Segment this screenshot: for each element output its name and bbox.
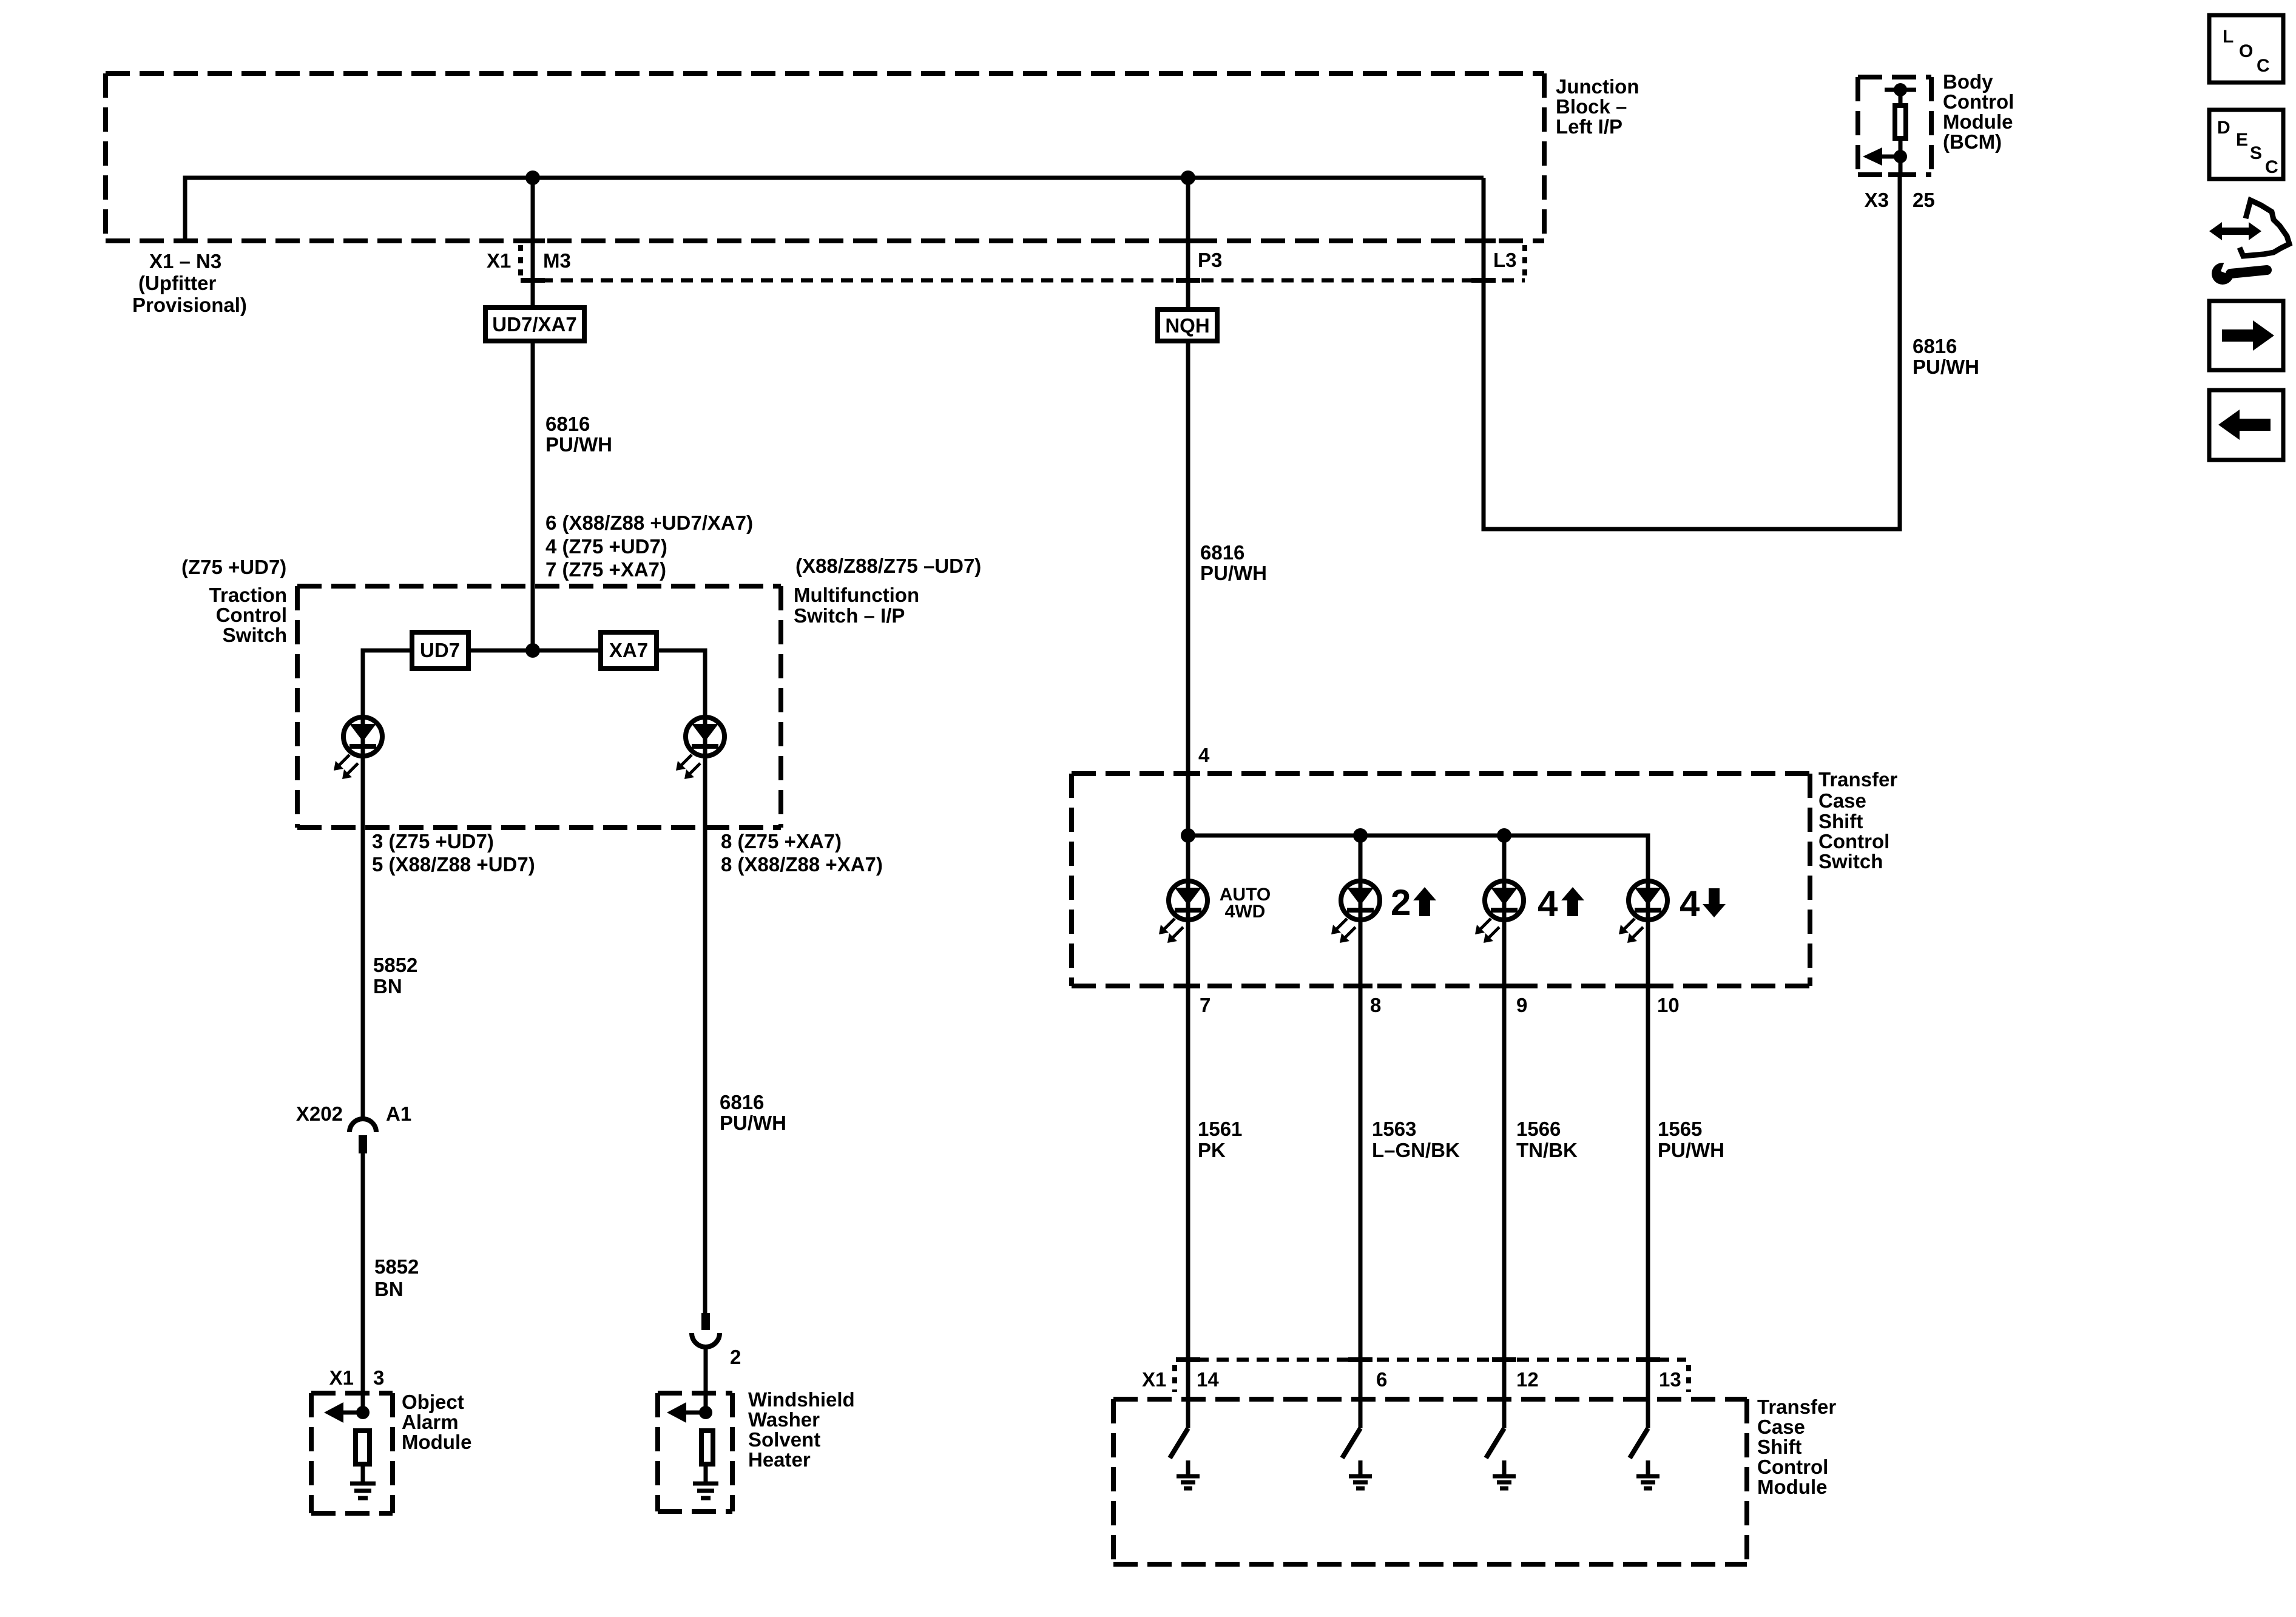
svg-text:Case: Case: [1757, 1416, 1805, 1438]
svg-text:Transfer: Transfer: [1818, 768, 1897, 791]
svg-text:NQH: NQH: [1165, 314, 1209, 337]
svg-text:(Upfitter: (Upfitter: [138, 272, 216, 294]
svg-text:M3: M3: [543, 249, 571, 272]
svg-text:PU/WH: PU/WH: [545, 433, 612, 456]
module strip separator right: [1686, 1365, 1691, 1392]
node bus 2: [1353, 828, 1368, 843]
svg-text:Case: Case: [1818, 789, 1866, 812]
label 6816 PU/WH washer: [720, 1091, 786, 1134]
fuse box UD7/XA7: [485, 308, 584, 341]
connector strip separator right: [1522, 245, 1527, 278]
svg-text:UD7/XA7: UD7/XA7: [492, 313, 576, 336]
label pin variants upper: [545, 511, 753, 581]
switch blade 3: [1486, 1428, 1504, 1458]
wire switch row left: [363, 650, 410, 1119]
wire main feed run: [185, 178, 1484, 243]
svg-text:D: D: [2217, 118, 2230, 138]
svg-text:TN/BK: TN/BK: [1516, 1139, 1578, 1161]
svg-text:2: 2: [1391, 882, 1411, 923]
svg-text:Switch: Switch: [223, 624, 287, 646]
fuse box NQH: [1158, 309, 1217, 341]
svg-text:6816: 6816: [720, 1091, 764, 1113]
svg-text:X202: X202: [296, 1102, 343, 1125]
svg-text:3: 3: [373, 1366, 384, 1389]
svg-text:P3: P3: [1198, 249, 1222, 271]
svg-text:12: 12: [1516, 1368, 1539, 1391]
node junction on main wire at UD7/XA7 drop: [525, 170, 540, 185]
svg-text:Provisional): Provisional): [132, 294, 247, 316]
ticks strip crossings: [1176, 1357, 1660, 1362]
option box UD7: [412, 632, 468, 669]
label X1 | 3 object: [329, 1366, 385, 1389]
LED 4LO: [1619, 881, 1667, 943]
svg-text:Washer: Washer: [748, 1408, 820, 1431]
svg-text:Shift: Shift: [1757, 1436, 1801, 1458]
wire LED drop 2: [1359, 836, 1363, 1428]
svg-text:XA7: XA7: [609, 639, 648, 661]
svg-text:X1: X1: [487, 249, 511, 272]
node junction at switch row: [525, 643, 540, 658]
label pins below traction: [372, 830, 535, 876]
svg-text:PU/WH: PU/WH: [720, 1112, 786, 1134]
resistor BCM: [1895, 106, 1906, 138]
wire NQH drop: [1186, 178, 1190, 307]
svg-text:Control: Control: [216, 604, 287, 626]
resistor washer: [701, 1431, 713, 1464]
connector strip separator left: [518, 245, 523, 278]
traction control switch label: [209, 584, 287, 646]
svg-text:Shift: Shift: [1818, 810, 1863, 832]
LED indicator right: [676, 717, 724, 779]
traction/multifunction switch dashed box: [297, 586, 781, 828]
svg-text:X1 – N3: X1 – N3: [149, 250, 221, 272]
ground module 2: [1349, 1460, 1372, 1488]
module strip separator left: [1172, 1365, 1177, 1392]
node junction on main wire at NQH drop: [1181, 170, 1195, 185]
svg-text:4 (Z75 +UD7): 4 (Z75 +UD7): [545, 535, 667, 558]
svg-text:Heater: Heater: [748, 1448, 811, 1471]
svg-text:3 (Z75 +UD7): 3 (Z75 +UD7): [372, 830, 494, 852]
svg-text:Control: Control: [1757, 1456, 1828, 1478]
svg-text:25: 25: [1913, 189, 1935, 211]
multifunction switch label: [794, 584, 919, 627]
svg-text:Traction: Traction: [209, 584, 287, 606]
LED 4HI: [1475, 881, 1524, 943]
BCM label: [1943, 70, 2014, 153]
wire below X202: [361, 1153, 365, 1413]
svg-text:4: 4: [1680, 883, 1700, 924]
svg-text:6: 6: [1376, 1368, 1387, 1391]
wire LED drop 1: [1186, 836, 1190, 1428]
tick strip crossing: [521, 278, 545, 283]
svg-text:5 (X88/Z88 +UD7): 5 (X88/Z88 +UD7): [372, 853, 535, 876]
label 1561 PK: [1198, 1118, 1242, 1161]
tick L3 crossing: [1471, 238, 1496, 243]
svg-text:Control: Control: [1818, 830, 1889, 852]
wire switch row mid: [471, 649, 598, 653]
label 1566 TN/BK: [1516, 1118, 1578, 1161]
svg-text:4: 4: [1198, 744, 1210, 766]
ground module 3: [1493, 1460, 1516, 1488]
label X1 - N3 (Upfitter Provisional): [132, 250, 247, 316]
svg-text:8 (X88/Z88 +XA7): 8 (X88/Z88 +XA7): [721, 853, 883, 876]
svg-text:13: 13: [1659, 1368, 1681, 1391]
label AUTO 4WD: [1220, 885, 1271, 922]
svg-text:Solvent: Solvent: [748, 1428, 820, 1451]
svg-text:E: E: [2236, 130, 2248, 150]
svg-text:6816: 6816: [1913, 335, 1957, 357]
svg-text:Module: Module: [1757, 1476, 1827, 1498]
wire L3 drop: [1484, 175, 1900, 529]
svg-text:14: 14: [1197, 1368, 1219, 1391]
svg-text:Block –: Block –: [1556, 95, 1627, 118]
tick BCM bottom crossing: [1888, 172, 1913, 177]
ground washer: [693, 1467, 718, 1498]
svg-text:Module: Module: [1943, 110, 2013, 133]
junction block connector strip dotted bottom: [521, 279, 1525, 283]
wire below UD7/XA7 box: [531, 343, 535, 650]
svg-text:C: C: [2265, 157, 2278, 177]
icon left arrow box: [2209, 390, 2283, 460]
tick switch box top crossing: [1176, 771, 1200, 776]
node bus 1: [1181, 828, 1195, 843]
svg-text:Switch – I/P: Switch – I/P: [794, 604, 905, 627]
svg-text:10: 10: [1657, 994, 1680, 1016]
option box XA7: [601, 632, 657, 669]
windshield washer label: [748, 1388, 855, 1471]
switch blade 1: [1170, 1428, 1188, 1458]
svg-text:Module: Module: [402, 1431, 471, 1453]
svg-text:(BCM): (BCM): [1943, 130, 2002, 153]
tick P3 crossing: [1176, 238, 1200, 243]
svg-text:9: 9: [1516, 994, 1527, 1016]
icon DESC box: [2209, 110, 2283, 179]
label 1563 L-GN/BK: [1372, 1118, 1460, 1161]
tick strip crossing L3: [1471, 278, 1496, 283]
svg-text:C: C: [2257, 56, 2270, 76]
transfer case switch dashed box: [1072, 774, 1810, 986]
svg-text:Control: Control: [1943, 90, 2014, 113]
label 5852 BN upper: [373, 954, 417, 998]
wire BCM resistor to pin: [1899, 141, 1903, 177]
junction block - left I/P dashed box: [106, 73, 1544, 241]
svg-text:Junction: Junction: [1556, 75, 1639, 98]
ground object module: [350, 1467, 376, 1498]
svg-text:8: 8: [1370, 994, 1381, 1016]
svg-text:Left I/P: Left I/P: [1556, 115, 1622, 138]
ground module 4: [1636, 1460, 1660, 1488]
tick strip crossing P3: [1176, 278, 1200, 283]
object alarm module dashed box: [311, 1393, 393, 1513]
switch blade 2: [1342, 1428, 1360, 1458]
label pins below multifunction: [721, 830, 883, 876]
svg-text:(X88/Z88/Z75 –UD7): (X88/Z88/Z75 –UD7): [795, 555, 981, 577]
svg-text:O: O: [2239, 41, 2253, 61]
icon diagnostic hook: [2240, 200, 2289, 256]
ticks switch box bottom: [1176, 984, 1660, 988]
svg-text:6 (X88/Z88 +UD7/XA7): 6 (X88/Z88 +UD7/XA7): [545, 511, 753, 534]
LED 2HI: [1331, 881, 1380, 943]
wire LED bus: [1188, 836, 1648, 1428]
svg-text:Alarm: Alarm: [402, 1411, 459, 1433]
wire washer lower: [704, 1346, 708, 1413]
svg-text:PK: PK: [1198, 1139, 1226, 1161]
arrow input washer: [667, 1402, 712, 1423]
svg-text:L: L: [2223, 27, 2234, 47]
LED indicator left: [334, 717, 382, 779]
transfer case module label: [1757, 1396, 1836, 1498]
svg-text:S: S: [2250, 143, 2262, 163]
svg-text:6816: 6816: [1200, 541, 1244, 564]
icon double arrow: [2222, 228, 2249, 235]
icon LOC box: [2209, 15, 2283, 83]
ground module 1: [1177, 1460, 1200, 1488]
inline connector washer pin 2: [692, 1313, 720, 1347]
svg-text:UD7: UD7: [420, 639, 460, 661]
module connector strip dotted line: [1177, 1358, 1686, 1362]
svg-text:5852: 5852: [373, 954, 417, 976]
transfer case switch label: [1818, 768, 1897, 873]
svg-text:PU/WH: PU/WH: [1913, 356, 1979, 378]
transfer case module dashed box: [1113, 1399, 1747, 1564]
svg-text:5852: 5852: [374, 1255, 419, 1278]
svg-text:Switch: Switch: [1818, 850, 1883, 873]
body control module dashed box: [1858, 77, 1931, 175]
svg-text:Body: Body: [1943, 70, 1993, 93]
icon wrench: [2212, 263, 2234, 285]
svg-text:BN: BN: [374, 1278, 403, 1300]
node bus 3: [1497, 828, 1511, 843]
arrow input BCM: [1863, 147, 1907, 166]
label 5852 BN lower: [374, 1255, 419, 1300]
svg-text:6816: 6816: [545, 413, 590, 435]
svg-text:1561: 1561: [1198, 1118, 1242, 1140]
svg-text:L–GN/BK: L–GN/BK: [1372, 1139, 1460, 1161]
svg-text:L3: L3: [1493, 249, 1517, 271]
svg-text:X1: X1: [329, 1366, 354, 1389]
svg-text:Transfer: Transfer: [1757, 1396, 1836, 1418]
svg-text:Object: Object: [402, 1391, 464, 1413]
windshield washer dashed box: [658, 1393, 732, 1511]
svg-text:1565: 1565: [1658, 1118, 1702, 1140]
svg-text:4WD: 4WD: [1225, 902, 1266, 922]
label 6816 PU/WH left: [545, 413, 612, 456]
LED AUTO 4WD: [1159, 881, 1207, 943]
svg-text:1563: 1563: [1372, 1118, 1416, 1140]
object alarm module label: [402, 1391, 471, 1453]
svg-text:PU/WH: PU/WH: [1200, 562, 1267, 584]
inline connector X202 A1: [349, 1119, 376, 1153]
svg-text:(Z75 +UD7): (Z75 +UD7): [181, 556, 286, 578]
svg-text:2: 2: [730, 1346, 741, 1368]
svg-text:4: 4: [1538, 883, 1558, 924]
BCM splice bar: [1885, 88, 1916, 92]
tick M3 crossing: [521, 238, 545, 243]
icon right arrow box: [2209, 301, 2283, 370]
svg-text:BN: BN: [373, 975, 402, 998]
arrow input object module: [324, 1402, 370, 1423]
switch blade 4: [1630, 1428, 1648, 1458]
label 1565 PU/WH: [1658, 1118, 1724, 1161]
svg-text:8 (Z75 +XA7): 8 (Z75 +XA7): [721, 830, 842, 852]
svg-text:7 (Z75 +XA7): 7 (Z75 +XA7): [545, 558, 666, 581]
svg-text:X3: X3: [1865, 189, 1889, 211]
resistor object module: [356, 1431, 370, 1464]
svg-text:1566: 1566: [1516, 1118, 1561, 1140]
label 6816 PU/WH right: [1913, 335, 1979, 378]
svg-text:X1: X1: [1142, 1368, 1166, 1391]
svg-text:Multifunction: Multifunction: [794, 584, 919, 606]
wire LED drop 3: [1502, 836, 1507, 1428]
svg-text:PU/WH: PU/WH: [1658, 1139, 1724, 1161]
svg-text:A1: A1: [386, 1102, 411, 1125]
label 6816 PU/WH center: [1200, 541, 1267, 584]
svg-text:Windshield: Windshield: [748, 1388, 855, 1411]
wire UD7/XA7 drop: [531, 178, 535, 305]
wire switch row right: [659, 650, 705, 1313]
wire below NQH: [1186, 343, 1190, 836]
junction block label: [1556, 75, 1639, 138]
svg-text:7: 7: [1200, 994, 1210, 1016]
